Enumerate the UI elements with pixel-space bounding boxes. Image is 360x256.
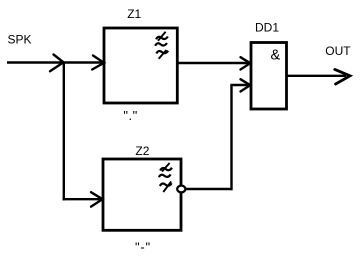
wire into DD1 input 2 — [230, 84, 249, 86]
svg-text:SPK: SPK — [8, 32, 32, 46]
ampersand function symbol inside DD1 — [271, 47, 281, 63]
wire DD1 output — [287, 75, 346, 77]
value label "-" under Z2 — [135, 239, 151, 254]
arrowhead on SPK wire at branch junction — [50, 55, 64, 72]
arrowhead into DD1 input 1 — [241, 57, 251, 69]
arrowhead OUT — [335, 69, 350, 84]
svg-text:&: & — [271, 47, 281, 63]
svg-text:Z2: Z2 — [135, 144, 149, 158]
Z2 band-pass filter symbol (crossed tilde, tilde, crossed tilde) — [159, 163, 172, 192]
wire branch vertical to Z2 — [63, 63, 65, 201]
svg-text:"-": "-" — [135, 239, 151, 254]
node OUT label — [325, 44, 351, 58]
svg-text:".": "." — [123, 108, 137, 123]
svg-text:OUT: OUT — [325, 44, 351, 58]
label DD1 — [255, 20, 279, 34]
arrowhead into DD1 input 2 — [241, 79, 251, 91]
label Z2 — [135, 144, 149, 158]
svg-text:Z1: Z1 — [127, 7, 141, 21]
Z1 band-pass filter symbol (crossed tilde, tilde, crossed tilde) — [155, 32, 168, 59]
filter block Z1 — [104, 28, 177, 103]
arrowhead into Z2 input — [91, 192, 103, 206]
wire Z1 output to DD1 input 1 — [178, 62, 250, 64]
arrowhead into Z1 input — [92, 56, 104, 70]
wire riser vertical up to DD1 input 2 — [230, 85, 232, 190]
filter block Z2 — [103, 159, 181, 230]
wire branch horizontal into Z2 — [63, 198, 102, 200]
svg-text:DD1: DD1 — [255, 20, 279, 34]
and-gate DD1 — [251, 43, 287, 110]
wire Z2 output horizontal to riser — [186, 188, 232, 190]
wire SPK input horizontal — [7, 61, 103, 63]
value label "." under Z1 — [123, 108, 137, 123]
node SPK label — [8, 32, 32, 46]
inversion bubble on Z2 output — [177, 186, 185, 193]
label Z1 — [127, 7, 141, 21]
